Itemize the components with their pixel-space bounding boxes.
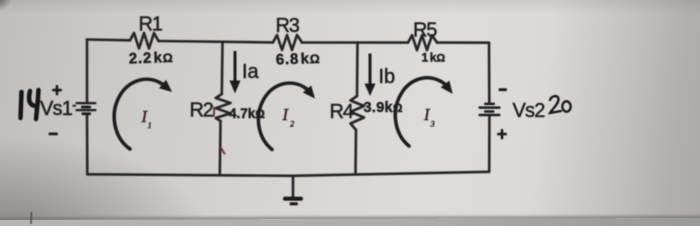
svg-text:R4: R4 bbox=[330, 101, 354, 123]
svg-text:4.7kΩ: 4.7kΩ bbox=[229, 106, 265, 121]
ground stem wire bbox=[292, 176, 295, 196]
svg-text:Vs2: Vs2 bbox=[513, 100, 546, 122]
svg-text:2.2kΩ: 2.2kΩ bbox=[129, 49, 174, 68]
wire branch1 (top, node A to R2) bbox=[221, 42, 224, 94]
wire branch2 (bottom, R4 to bottom node) bbox=[354, 130, 357, 174]
wire branch2 (top, node B to R4) bbox=[356, 43, 359, 97]
wire left (bottom of Vs1) bbox=[86, 116, 89, 175]
red polarity tick below R2 bbox=[221, 148, 225, 154]
wire top (left segment, node between Vs1 and R1) bbox=[87, 38, 130, 41]
svg-text:I: I bbox=[282, 105, 290, 124]
mesh loop arrow I2 bbox=[258, 83, 319, 149]
svg-text:R3: R3 bbox=[276, 15, 300, 37]
polarity - of Vs1 bbox=[49, 133, 59, 136]
resistor R4 zigzag bbox=[351, 96, 365, 130]
voltage source Vs1 battery plates bbox=[76, 102, 97, 115]
handwritten 14 (Vs1 value) bbox=[21, 90, 39, 119]
handwritten 20 (Vs2 value) bbox=[550, 96, 571, 113]
svg-text:2: 2 bbox=[290, 119, 295, 129]
polarity - of Vs2 bbox=[499, 88, 508, 91]
svg-text:1: 1 bbox=[148, 120, 152, 130]
current arrow Ia bbox=[230, 51, 241, 94]
wire right (bottom of Vs2) bbox=[488, 117, 491, 172]
mesh loop arrow I3 bbox=[395, 78, 457, 146]
mesh current label I2 bbox=[282, 105, 296, 129]
mesh current label I3 bbox=[423, 105, 435, 129]
mesh current label I1 bbox=[141, 107, 152, 130]
svg-text:3.9kΩ: 3.9kΩ bbox=[364, 100, 403, 116]
ground symbol bars bbox=[283, 197, 303, 206]
wire left (top of Vs1) bbox=[86, 40, 89, 102]
svg-text:R1: R1 bbox=[139, 14, 163, 36]
mesh loop arrow I1 bbox=[114, 79, 175, 149]
resistor R2 zigzag bbox=[216, 94, 231, 121]
svg-text:Ib: Ib bbox=[379, 66, 396, 88]
svg-text:1kΩ: 1kΩ bbox=[422, 51, 446, 65]
wire right (top of Vs2) bbox=[488, 43, 491, 102]
resistor R5 zigzag bbox=[408, 35, 437, 50]
svg-text:R5: R5 bbox=[413, 20, 437, 42]
wire bottom bbox=[87, 172, 489, 176]
wire top (segment R3 to R5, node B with branch2) bbox=[302, 41, 408, 44]
resistor R1 zigzag bbox=[130, 33, 159, 49]
polarity + of Vs1 bbox=[52, 85, 62, 95]
resistor R3 zigzag bbox=[273, 35, 302, 50]
svg-text:Ia: Ia bbox=[242, 61, 260, 83]
wire top (segment R1 to R3, node A with branch1) bbox=[159, 41, 274, 42]
wire branch1 (bottom, R2 to bottom node) bbox=[219, 121, 222, 175]
current arrow Ib bbox=[365, 54, 376, 97]
red tick mark left of R2 bbox=[213, 108, 215, 117]
stray vertical tick mark bottom-left bbox=[30, 212, 33, 224]
svg-text:Vs1: Vs1 bbox=[40, 98, 73, 120]
voltage source Vs2 battery plates bbox=[479, 103, 501, 117]
wire top (segment R5 to right corner) bbox=[437, 41, 489, 44]
svg-text:6.8kΩ: 6.8kΩ bbox=[276, 50, 321, 69]
polarity + of Vs2 bbox=[497, 129, 507, 139]
svg-text:R2: R2 bbox=[190, 100, 214, 122]
svg-text:3: 3 bbox=[430, 119, 435, 129]
small tick left of Vs1 plates bbox=[73, 105, 77, 107]
